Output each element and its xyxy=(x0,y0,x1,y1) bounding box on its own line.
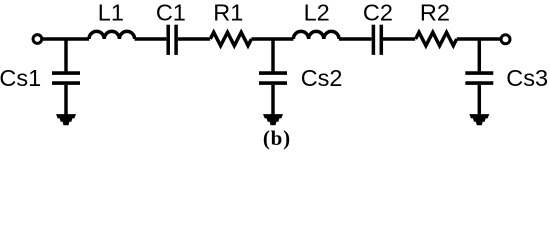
node 2 vertical stub xyxy=(271,39,274,71)
wire: left terminal to L1 xyxy=(43,37,89,40)
input terminal (left port) xyxy=(33,35,42,44)
ground (Cs3) xyxy=(469,114,489,125)
svg-text:R1: R1 xyxy=(213,0,243,26)
wire: C1 to R1 xyxy=(178,37,210,40)
wire: Cs3 to ground xyxy=(478,85,481,116)
wire: Cs2 to ground xyxy=(271,85,274,116)
wire: L2 to C2 xyxy=(339,37,372,40)
svg-text:(b): (b) xyxy=(263,126,291,150)
wire: L1 to C1 xyxy=(135,37,167,40)
svg-text:C2: C2 xyxy=(363,0,393,26)
wire: R1 to L2 (through node 2) xyxy=(251,37,293,40)
svg-text:Cs1: Cs1 xyxy=(0,65,41,91)
node 3 vertical stub xyxy=(478,39,481,71)
ground (Cs1) xyxy=(56,114,76,125)
svg-text:C1: C1 xyxy=(156,0,186,26)
svg-text:R2: R2 xyxy=(420,0,450,26)
capacitor C2 xyxy=(373,25,381,55)
wire: Cs1 to ground xyxy=(64,85,67,116)
resistor R2 xyxy=(416,32,457,45)
capacitor Cs3 xyxy=(465,73,493,83)
node 1 vertical stub xyxy=(64,39,67,71)
svg-text:Cs2: Cs2 xyxy=(301,65,343,91)
capacitor C1 xyxy=(168,25,176,55)
capacitor Cs2 xyxy=(259,73,287,83)
svg-text:Cs3: Cs3 xyxy=(506,65,548,91)
svg-text:L1: L1 xyxy=(98,0,124,26)
capacitor Cs1 xyxy=(52,73,80,83)
ground (Cs2) xyxy=(263,114,283,125)
inductor L1 xyxy=(89,31,135,39)
wire: R2 to right terminal (through node 3) xyxy=(457,37,500,40)
wire: C2 to R2 xyxy=(383,37,415,40)
resistor R1 xyxy=(210,32,251,45)
inductor L2 xyxy=(293,31,339,39)
output terminal (right port) xyxy=(501,35,510,44)
svg-text:L2: L2 xyxy=(304,0,330,26)
